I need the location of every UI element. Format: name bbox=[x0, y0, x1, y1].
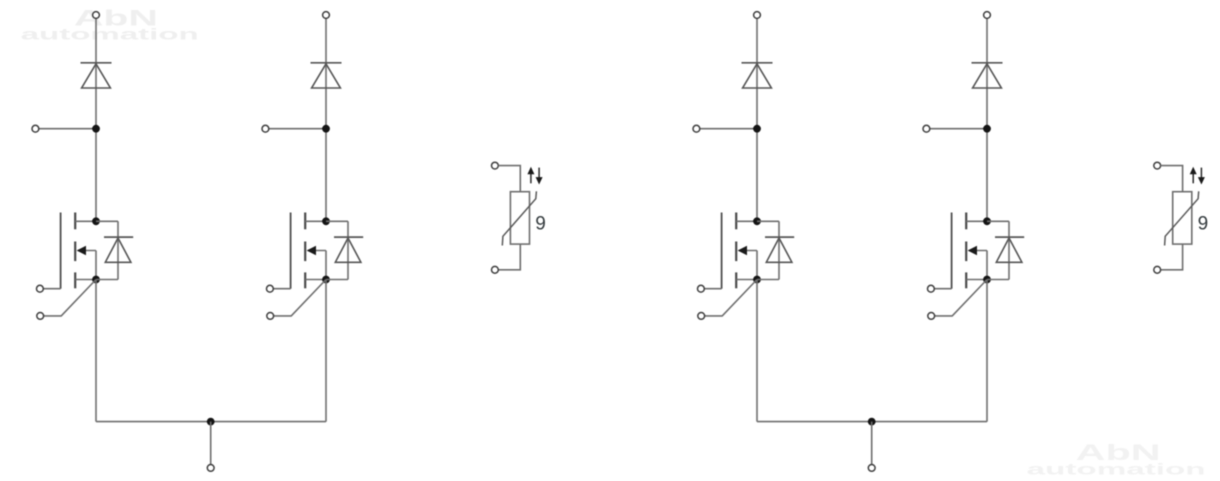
svg-text:automation: automation bbox=[1027, 462, 1206, 479]
svg-text:automation: automation bbox=[21, 26, 199, 43]
